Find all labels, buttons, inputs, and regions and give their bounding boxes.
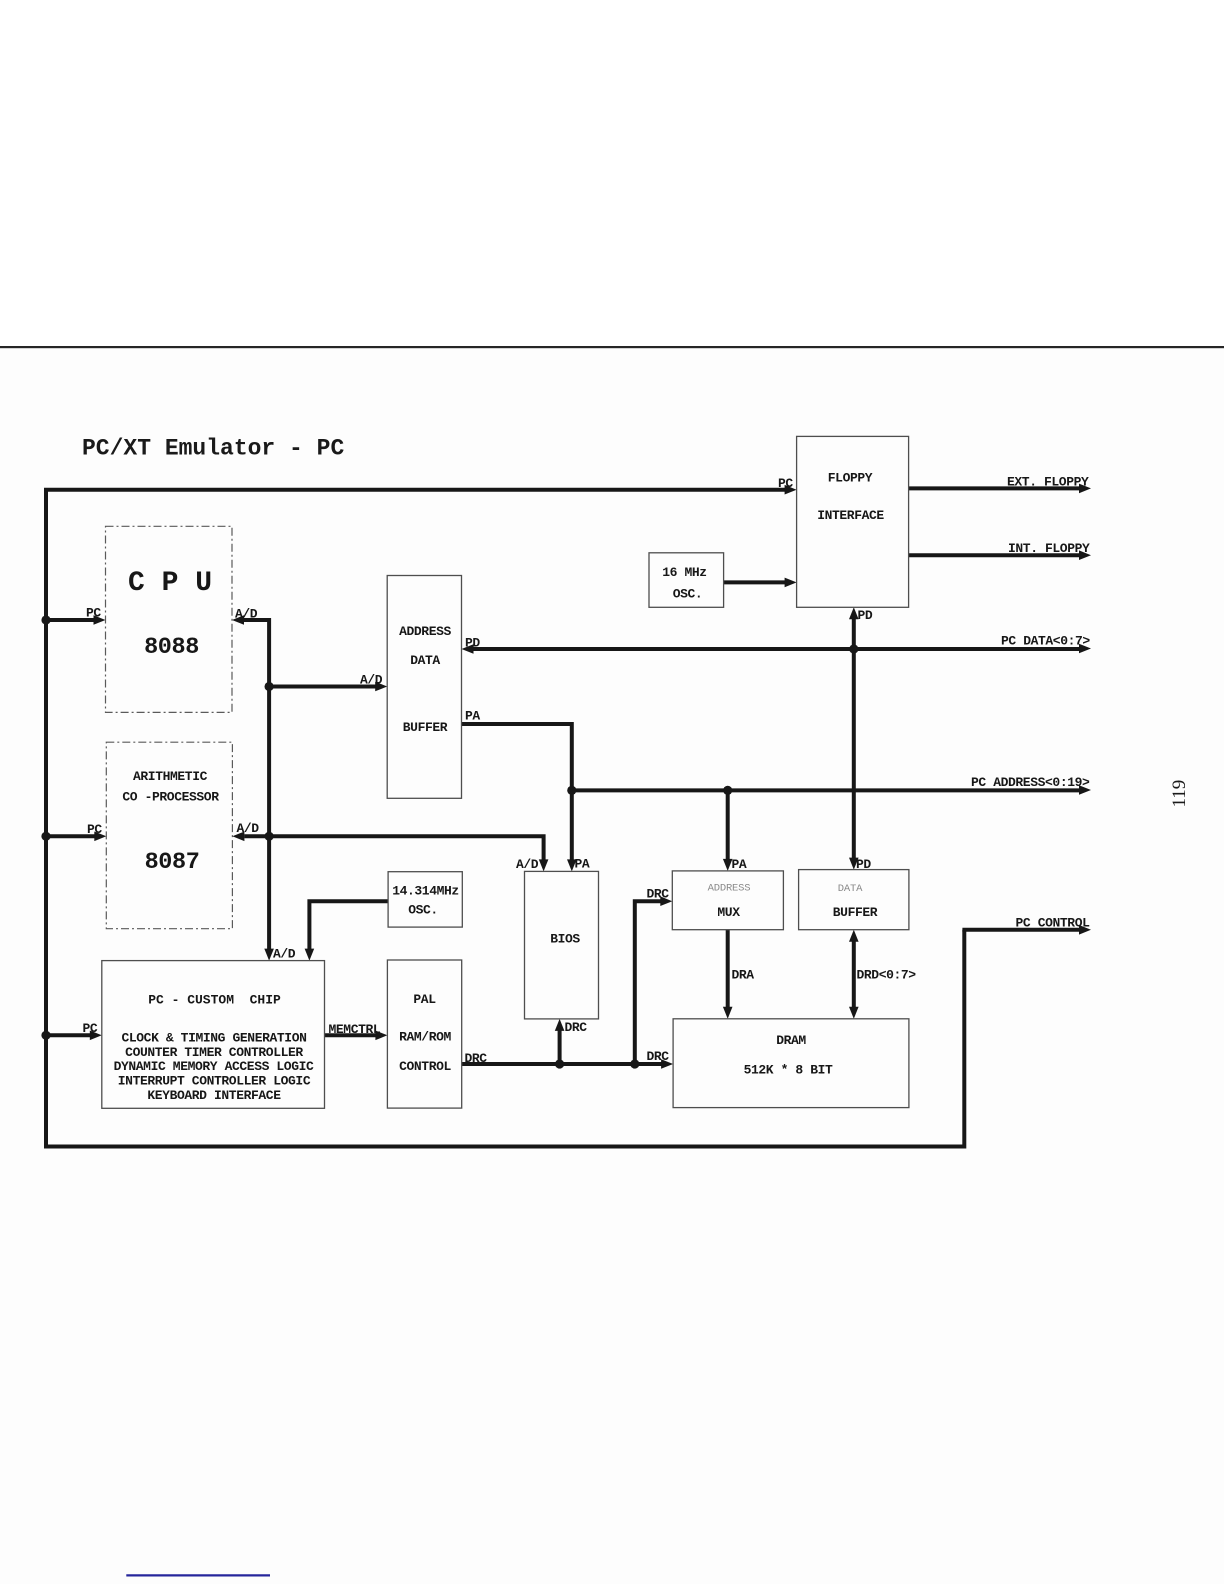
svg-text:DATA: DATA xyxy=(838,883,863,895)
svg-text:OSC.: OSC. xyxy=(408,903,438,918)
wire: PC tap to PC-CUSTOM chip xyxy=(46,1021,102,1040)
svg-text:PA: PA xyxy=(575,857,590,872)
wire: PD / PC DATA bus xyxy=(462,634,1092,654)
wire: PD vertical floppy to data buffer xyxy=(849,607,873,872)
svg-text:DRA: DRA xyxy=(732,968,755,983)
svg-text:PC: PC xyxy=(87,822,102,837)
svg-text:DATA: DATA xyxy=(410,653,440,668)
svg-text:RAM/ROM: RAM/ROM xyxy=(399,1030,451,1045)
svg-text:A/D: A/D xyxy=(237,821,260,836)
junction dot PD / PC DATA xyxy=(849,644,858,653)
arrowhead PC bus into floppy interface xyxy=(785,485,797,495)
horizontal page rule xyxy=(0,346,1224,348)
wire: PC ADDRESS bus xyxy=(572,775,1091,795)
svg-text:PC ADDRESS<0:19>: PC ADDRESS<0:19> xyxy=(971,775,1090,790)
wire: 16 MHz osc to floppy xyxy=(724,578,797,588)
block DRAM 512K x 8 bit xyxy=(673,1019,909,1108)
wire: INT. FLOPPY xyxy=(909,541,1091,560)
svg-text:PD: PD xyxy=(858,608,873,623)
svg-text:DRC: DRC xyxy=(565,1020,588,1035)
wire: A/D branch 8087 and BIOS xyxy=(232,821,548,872)
svg-text:A/D: A/D xyxy=(235,607,258,622)
wire: EXT. FLOPPY xyxy=(909,475,1091,494)
svg-text:8087: 8087 xyxy=(145,849,200,876)
svg-text:8088: 8088 xyxy=(144,634,199,661)
wire: DRC branch up to BIOS xyxy=(555,1019,588,1064)
svg-text:PC/XT Emulator - PC: PC/XT Emulator - PC xyxy=(82,436,344,462)
wire: DRD data buffer to DRAM xyxy=(849,930,916,1019)
block PC custom chip xyxy=(102,961,325,1109)
svg-text:DRC: DRC xyxy=(465,1051,488,1066)
svg-text:16 MHz: 16 MHz xyxy=(662,565,706,580)
wire: DRA mux to DRAM xyxy=(723,930,754,1019)
bottom blue underline mark xyxy=(126,1574,270,1576)
junction dot A/D 8087 branch xyxy=(265,832,274,841)
svg-text:PC: PC xyxy=(83,1021,98,1036)
svg-text:DRC: DRC xyxy=(647,887,670,902)
junction dot A/D buffer branch xyxy=(265,682,274,691)
svg-text:A/D: A/D xyxy=(360,673,383,688)
svg-text:COUNTER TIMER CONTROLLER: COUNTER TIMER CONTROLLER xyxy=(125,1045,303,1060)
svg-text:ADDRESS: ADDRESS xyxy=(708,883,751,895)
wire: PC CONTROL xyxy=(962,916,1091,935)
wire: MEMCTRL custom chip to PAL xyxy=(325,1022,388,1040)
junction dot PC/custom xyxy=(41,1031,50,1040)
svg-text:512K * 8 BIT: 512K * 8 BIT xyxy=(744,1063,833,1078)
wire: PA from buffer down to BIOS xyxy=(462,709,590,872)
svg-text:119: 119 xyxy=(1169,780,1190,808)
svg-text:CLOCK & TIMING GENERATION: CLOCK & TIMING GENERATION xyxy=(121,1031,306,1046)
svg-text:DRAM: DRAM xyxy=(776,1033,806,1048)
svg-text:PAL: PAL xyxy=(413,992,436,1007)
block data buffer (DRAM side) xyxy=(799,870,909,930)
svg-text:PC DATA<0:7>: PC DATA<0:7> xyxy=(1001,634,1090,649)
wire: DRC from PAL to DRAM xyxy=(462,1049,673,1069)
junction dot PA / PC ADDRESS xyxy=(567,786,576,795)
wire: 14.314 MHz osc to custom chip xyxy=(305,901,389,960)
svg-text:PC: PC xyxy=(778,476,793,491)
svg-text:PD: PD xyxy=(465,636,480,651)
svg-text:PA: PA xyxy=(732,857,747,872)
svg-text:MEMCTRL: MEMCTRL xyxy=(329,1022,381,1037)
svg-text:PA: PA xyxy=(465,709,480,724)
wire: PC bus top segment to floppy xyxy=(46,490,964,1147)
svg-text:BIOS: BIOS xyxy=(550,932,580,947)
svg-text:DRD<0:7>: DRD<0:7> xyxy=(857,968,917,983)
block 16 MHz oscillator xyxy=(649,553,724,608)
svg-text:A/D: A/D xyxy=(516,857,539,872)
wire: A/D bus from CPU down to custom chip xyxy=(232,607,296,962)
wire: PC tap to 8087 xyxy=(46,822,106,841)
svg-text:A/D: A/D xyxy=(273,947,296,962)
block arithmetic co-processor 8087 xyxy=(106,742,232,929)
block address mux xyxy=(672,871,783,930)
svg-text:EXT. FLOPPY: EXT. FLOPPY xyxy=(1007,475,1089,490)
svg-text:DYNAMIC MEMORY ACCESS LOGIC: DYNAMIC MEMORY ACCESS LOGIC xyxy=(114,1059,314,1074)
junction dot PC/CPU xyxy=(41,615,50,624)
svg-text:KEYBOARD INTERFACE: KEYBOARD INTERFACE xyxy=(147,1088,281,1103)
junction dot PA mux branch xyxy=(723,786,732,795)
svg-text:14.314MHz: 14.314MHz xyxy=(392,884,459,899)
svg-text:FLOPPY: FLOPPY xyxy=(828,471,873,486)
svg-text:PC - CUSTOM CHIP: PC - CUSTOM CHIP xyxy=(148,993,281,1008)
svg-text:C P U: C P U xyxy=(128,568,212,599)
wire: PA branch down to address mux xyxy=(723,790,747,872)
block BIOS xyxy=(525,871,599,1019)
block PAL RAM/ROM control xyxy=(387,960,461,1108)
svg-text:INTERFACE: INTERFACE xyxy=(817,508,884,523)
block 14.314 MHz oscillator xyxy=(388,872,462,927)
junction dot DRC BIOS branch xyxy=(555,1059,564,1068)
svg-text:ADDRESS: ADDRESS xyxy=(399,624,451,639)
svg-text:MUX: MUX xyxy=(717,905,740,920)
svg-text:INTERRUPT CONTROLLER LOGIC: INTERRUPT CONTROLLER LOGIC xyxy=(118,1073,311,1088)
svg-text:CONTROL: CONTROL xyxy=(399,1059,451,1074)
svg-text:PC CONTROL: PC CONTROL xyxy=(1016,916,1091,931)
junction dot PC/8087 xyxy=(41,832,50,841)
wire: DRC branch to address mux xyxy=(635,887,673,1065)
svg-text:DRC: DRC xyxy=(647,1049,670,1064)
svg-text:OSC.: OSC. xyxy=(673,587,703,602)
wire: A/D branch to address data buffer xyxy=(269,673,387,692)
junction dot DRC mux branch xyxy=(630,1059,639,1068)
svg-text:CO -PROCESSOR: CO -PROCESSOR xyxy=(122,790,219,805)
wire: PC tap to CPU xyxy=(46,606,106,625)
svg-text:INT. FLOPPY: INT. FLOPPY xyxy=(1008,541,1090,556)
svg-text:BUFFER: BUFFER xyxy=(403,720,448,735)
svg-text:BUFFER: BUFFER xyxy=(833,905,878,920)
block floppy interface xyxy=(797,436,909,607)
svg-text:PC: PC xyxy=(86,606,101,621)
block CPU 8088 xyxy=(106,526,233,712)
block address data buffer xyxy=(387,576,461,799)
svg-text:ARITHMETIC: ARITHMETIC xyxy=(133,769,208,784)
